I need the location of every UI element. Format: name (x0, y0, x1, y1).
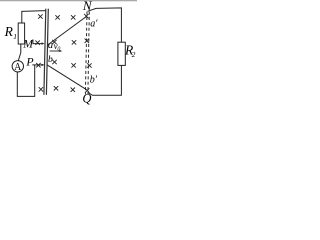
ammeter A (12, 61, 23, 72)
field cross on P wire (36, 63, 40, 67)
field cross on dashed row2 (85, 39, 89, 43)
top border (0, 0, 137, 1)
arrowhead M wire (42, 42, 45, 44)
svg-text:1: 1 (13, 32, 17, 41)
rod b-b' (bottom diagonal) (47, 65, 86, 89)
svg-text:R: R (4, 24, 14, 39)
field cross row2 middle (72, 40, 76, 44)
plate right line (46, 9, 48, 95)
resistor R2 (118, 42, 125, 65)
svg-text:a: a (48, 40, 53, 51)
svg-text:A: A (14, 62, 22, 73)
svg-text:b′: b′ (90, 75, 98, 86)
wire (ammeter down, bottom left loop, up to P) (17, 65, 34, 97)
field cross row4 inner (54, 86, 58, 90)
field cross on dashed near b' (85, 88, 89, 92)
field cross row1 middle (71, 15, 75, 19)
field cross on dashed mid right (87, 63, 91, 67)
wire (P to left plate) (32, 64, 42, 66)
wire (R1 top to left plate) (22, 11, 46, 24)
wire (M stub to left plate) (33, 39, 42, 43)
wire (Q to R2 bottom) (88, 65, 122, 95)
field cross on dashed near a' (84, 14, 88, 18)
field cross row3 middle (71, 63, 75, 67)
background (0, 0, 137, 108)
field cross on M wire (35, 41, 39, 45)
field cross row4 middle (71, 88, 75, 92)
svg-text:N: N (82, 0, 93, 13)
field cross near b (52, 60, 56, 64)
rod a-a' (top diagonal) (47, 16, 87, 45)
svg-text:P: P (25, 55, 33, 69)
field cross row1 inner (55, 15, 59, 19)
svg-text:2: 2 (132, 50, 136, 59)
wire (N to R2 top) (88, 8, 122, 42)
plate left line (44, 9, 46, 95)
dashed rail right line (88, 12, 89, 95)
arrowhead P wire (42, 64, 45, 66)
velocity arrow v0 (50, 50, 61, 52)
field cross row4 left (39, 87, 43, 91)
field cross row1 left (38, 14, 42, 18)
field cross near a (52, 40, 56, 44)
svg-text:a′: a′ (90, 18, 98, 29)
wire (R1 bottom to ammeter) (18, 44, 21, 61)
resistor R1 (18, 23, 24, 44)
dashed rail left line (85, 12, 87, 95)
